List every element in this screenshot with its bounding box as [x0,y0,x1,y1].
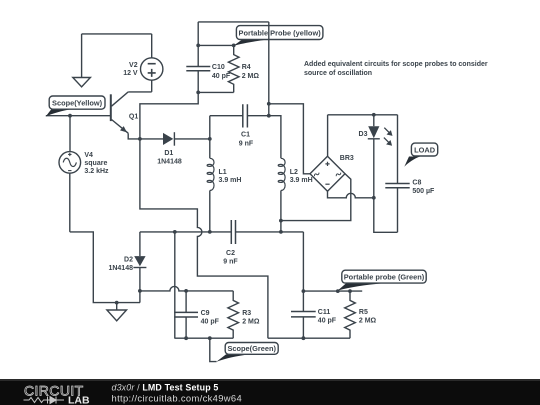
resistor R3 [228,291,260,338]
svg-text:L2: L2 [290,169,298,176]
svg-text:square: square [84,160,107,167]
node C9R3 bottom junctions [184,336,212,340]
svg-text:2 MΩ: 2 MΩ [242,73,260,80]
svg-text:Scope(Yellow): Scope(Yellow) [52,99,103,108]
capacitor C8 [385,115,435,233]
label Scope(Green) [216,343,278,362]
inductor L1 [207,116,241,232]
node C10/R4 junctions [196,44,235,95]
svg-text:C9: C9 [201,310,210,317]
wire D3 bottom loop to C8 bottom [374,198,398,233]
svg-text:LAB: LAB [68,395,90,405]
wire probe yellow vertical [268,22,270,116]
wire C9R3 top rail with hop [140,286,233,290]
svg-text:9 nF: 9 nF [223,259,238,266]
svg-text:9 nF: 9 nF [239,140,254,147]
LED D3 [359,115,393,198]
svg-text:V4: V4 [84,152,93,159]
svg-text:Added equivalent circuits for: Added equivalent circuits for scope prob… [304,61,488,68]
node Q1 emitter junction [138,137,142,141]
bridge rectifier BR3 [310,155,354,191]
wire C11R5 top rail [303,290,362,292]
wire BR3 top to rail [327,115,329,156]
svg-text:D1: D1 [164,150,173,157]
label Portable probe (Green) [338,270,427,290]
svg-text:C2: C2 [226,250,235,257]
wire main bottom rail y=232 [140,231,304,233]
svg-text:D3: D3 [359,131,368,138]
svg-text:C1: C1 [241,132,250,139]
node green probe junctions [336,289,352,293]
svg-text:R3: R3 [242,310,251,317]
node D3 bottom [372,196,376,200]
svg-text:Portable Probe (yellow): Portable Probe (yellow) [239,29,322,38]
capacitor C11 [291,291,337,338]
svg-text:C11: C11 [318,309,331,316]
node C9 top [184,289,188,293]
label Scope(Yellow) [46,96,105,117]
svg-text:V2: V2 [129,62,138,69]
resistor R4 [198,45,259,92]
diode D1 [140,132,210,165]
node C11 bottom [302,336,306,340]
wire C2-node vertical to C9R3 bottom [174,232,176,338]
svg-text:Portable probe (Green): Portable probe (Green) [344,273,425,282]
capacitor C2 [223,220,238,266]
wire V2 to Q1 collector [128,91,152,93]
svg-text:D2: D2 [124,257,133,264]
svg-text:R5: R5 [359,309,368,316]
svg-text:C8: C8 [412,180,421,187]
capacitor C9 [174,291,219,338]
logo CIRCUIT LAB [24,383,90,405]
svg-text:3.9 mH: 3.9 mH [219,177,242,184]
wire C9R3 bottom rail [174,337,233,339]
node ground tap [115,301,119,305]
node scope yellow junction [68,114,72,118]
svg-text:3.9 mH: 3.9 mH [290,177,313,184]
svg-text:40 pF: 40 pF [201,319,220,326]
label Portable Probe (yellow) [234,26,323,46]
wire top-left rail [82,33,152,35]
node D3 top [372,113,376,117]
node D1-L1 junction [208,137,212,141]
node L-C rail junctions [173,230,283,234]
svg-text:2 MΩ: 2 MΩ [242,319,260,326]
voltage source V4 [59,116,109,232]
wire probe node to BR3 left [269,104,310,174]
inductor L2 [269,116,313,232]
wire emitter branch jog with hop [140,139,268,338]
svg-text:LOAD: LOAD [414,146,436,155]
svg-text:Scope(Green): Scope(Green) [227,344,276,353]
svg-text:40 pF: 40 pF [212,73,231,80]
svg-text:3.2 kHz: 3.2 kHz [84,168,109,175]
transistor Q1 [111,92,140,139]
wire BR3 right corner down to L2 return [281,174,351,221]
svg-text:500 µF: 500 µF [412,188,435,195]
svg-text:1N4148: 1N4148 [108,265,133,272]
svg-text:source of oscillation: source of oscillation [304,70,372,77]
svg-text:40 pF: 40 pF [318,318,337,325]
wire rail to C11 top [302,232,304,291]
node D2 / probe rail [138,289,142,293]
note text [304,61,488,77]
footer bar [0,379,540,405]
wire scope green stub [210,338,217,361]
svg-text:C10: C10 [212,64,225,71]
label LOAD [404,143,437,167]
wire V4 bottom to ground rail [70,232,140,303]
diode D2 [108,232,146,303]
node L2 junctions [267,102,283,223]
svg-text:2 MΩ: 2 MΩ [359,318,377,325]
svg-text:http://circuitlab.com/ck49w64: http://circuitlab.com/ck49w64 [112,392,243,403]
footer credit text [112,383,243,404]
wire probe vertical over label [268,26,270,40]
capacitor C1 [210,104,269,147]
wire probe yellow top rail [198,21,269,23]
wire BR3 bottom with hop to D3 node [328,191,374,198]
svg-text:Q1: Q1 [129,113,138,120]
wire right top rail [328,114,398,116]
resistor R5 [345,291,377,338]
node C11 top [302,289,306,293]
svg-text:R4: R4 [242,64,251,71]
ground [107,303,127,321]
antenna arrow (V2 top terminal) [73,34,91,87]
svg-text:L1: L1 [219,169,227,176]
svg-text:12 V: 12 V [123,70,138,77]
svg-text:BR3: BR3 [340,155,354,162]
voltage source V2 [123,34,163,92]
wire Q1 base [46,115,111,117]
svg-text:1N4148: 1N4148 [157,159,182,166]
wire C10 bottom to Q1 emitter node [140,92,198,138]
svg-text:d3x0r / LMD Test Setup 5: d3x0r / LMD Test Setup 5 [112,383,219,393]
wire C11R5 bottom rail [268,337,350,339]
capacitor C10 [186,22,231,93]
